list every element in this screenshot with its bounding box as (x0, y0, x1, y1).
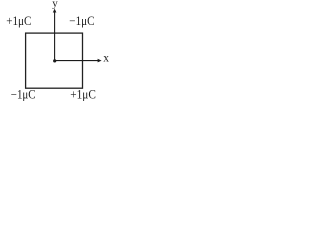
svg-text:−1μC: −1μC (69, 14, 94, 28)
origin node (53, 59, 56, 62)
y-axis (53, 9, 57, 61)
svg-text:−1μC: −1μC (11, 88, 36, 102)
svg-text:x: x (103, 52, 109, 64)
svg-text:+1μC: +1μC (6, 14, 31, 28)
square of charges (26, 33, 83, 88)
svg-text:y: y (52, 0, 58, 9)
svg-text:+1μC: +1μC (70, 88, 96, 102)
x-axis (55, 59, 102, 63)
